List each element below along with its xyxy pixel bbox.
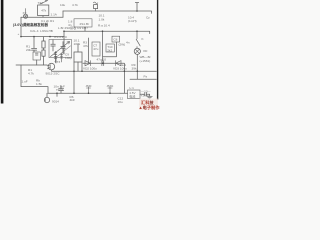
svg-text:C2L-4 L3N4-HB: C2L-4 L3N4-HB [30,29,53,33]
right scan edge [157,0,158,100]
ground [147,94,152,99]
svg-text:L.Br 2S0接收 C9 1M7: L.Br 2S0接收 C9 1M7 [58,25,88,30]
svg-text:(2W): (2W) [119,43,126,47]
svg-text:JM0t: JM0t [107,84,114,88]
wire rail B [63,11,152,13]
wire x124 riser [123,63,125,93]
antenna riser [135,3,138,11]
wire mid riser x88 [88,38,90,63]
box T10 [103,44,116,57]
lamp XD [134,48,140,71]
wire mic stub [56,93,58,96]
wire riser C [63,31,65,54]
wire shield left down [73,62,75,93]
svg-text:+: + [18,32,20,36]
svg-text:100k: 100k [74,42,81,46]
svg-text:(1mH): (1mH) [128,19,137,23]
svg-text:4.7k: 4.7k [72,3,78,7]
relay box K1 [92,42,100,56]
wire rail G3 [130,78,156,80]
capacitor C10 [102,61,104,66]
gang arrow [50,41,69,56]
svg-text:4n: 4n [126,41,130,45]
shield box L2 [74,45,82,63]
inductor L3 [54,52,57,63]
battery box GB [128,90,141,99]
svg-text:47u/10: 47u/10 [97,57,107,61]
svg-text:1.0k: 1.0k [99,17,105,21]
diode VD3 [116,61,121,66]
gang arrow 2 [56,46,70,57]
box M crystal unit [74,19,92,31]
svg-text:4.7k: 4.7k [28,71,34,75]
wire rail G bottom [48,92,128,94]
wire shield right down [81,62,83,71]
svg-text:10u: 10u [60,3,65,7]
svg-text:R:a 10.4: R:a 10.4 [98,23,110,27]
svg-text:47k: 47k [41,8,46,12]
svg-text:100p: 100p [65,56,72,60]
svg-text:1.5k: 1.5k [36,82,42,86]
svg-text:XT: XT [23,11,27,15]
svg-text:XD: XD [143,49,148,53]
capacitor C2 [32,37,37,52]
microphone BM [44,93,49,103]
svg-text:4k9: 4k9 [70,98,75,102]
left scan edge [1,0,4,104]
tuning gang box [49,40,72,58]
resistor R3 [42,50,45,65]
svg-text:VD2 100u: VD2 100u [83,67,97,71]
wire rail E [16,64,47,66]
crystal XT [24,9,28,19]
box C8 [112,36,120,48]
svg-text:C1-4 270: C1-4 270 [54,35,67,39]
svg-text:1.uF: 1.uF [22,80,28,84]
svg-text:▲电子制作: ▲电子制作 [139,104,161,110]
svg-text:T102: T102 [56,88,63,92]
svg-text:1a.1: 1a.1 [120,63,126,67]
wire rail E2 [52,70,156,72]
capacitor C13 stub [108,87,112,93]
svg-text:7X2: 7X2 [38,1,44,5]
wire left L path [21,65,48,93]
svg-text:C8: C8 [113,37,117,41]
svg-text:C1 2p R1: C1 2p R1 [41,19,54,23]
wire lamp to rail3 [136,71,138,79]
svg-text:L:1: L:1 [130,86,135,90]
svg-text:9013·2SC: 9013·2SC [46,71,61,75]
watermark halo [139,99,158,111]
wire rail A [21,16,63,18]
svg-text:39k: 39k [132,66,137,70]
svg-text:47k: 47k [83,44,88,48]
wire battery right [140,93,144,95]
trimmer T1 box [38,1,49,18]
crystal Y1 [93,2,97,11]
svg-text:(3.6V)调频高频发射器: (3.6V)调频高频发射器 [13,22,48,27]
svg-text:1.1A: 1.1A [51,12,58,16]
labels [13,1,160,111]
wire mid riser x102 [102,31,104,61]
variable capacitor C1a [51,40,56,51]
wire riser A-B [62,11,64,17]
svg-text:10u: 10u [118,100,123,104]
diode VD2 [85,61,90,66]
switch K [136,31,140,48]
svg-text:20k: 20k [26,48,31,52]
wire node at x20 down [20,17,22,36]
wire box to base [55,58,57,63]
junction dots [20,10,138,94]
wire shield mid down [77,62,79,71]
capacitor C11 [59,86,64,94]
svg-text:电池: 电池 [129,93,135,98]
capacitor C14 [145,93,147,97]
capacitor C12 stub [86,87,90,93]
wire rail C [64,31,150,33]
box C5 [33,52,41,65]
resistor R2 [42,37,45,50]
svg-text:9014: 9014 [52,99,59,103]
svg-text:VT3: VT3 [55,60,61,64]
variable capacitor C1b [61,42,66,54]
wire rail F diode row [83,62,124,64]
svg-text:47u: 47u [93,47,98,51]
inductor L4 [60,53,62,62]
wire cap to ground [147,93,150,95]
svg-text:(+1581): (+1581) [140,59,151,63]
svg-text:2k2: 2k2 [107,48,112,52]
svg-text:JM0: JM0 [86,84,92,88]
transistor VT3 [47,63,55,71]
wire rail D [21,36,64,38]
svg-text:+14mA: +14mA [141,94,152,98]
